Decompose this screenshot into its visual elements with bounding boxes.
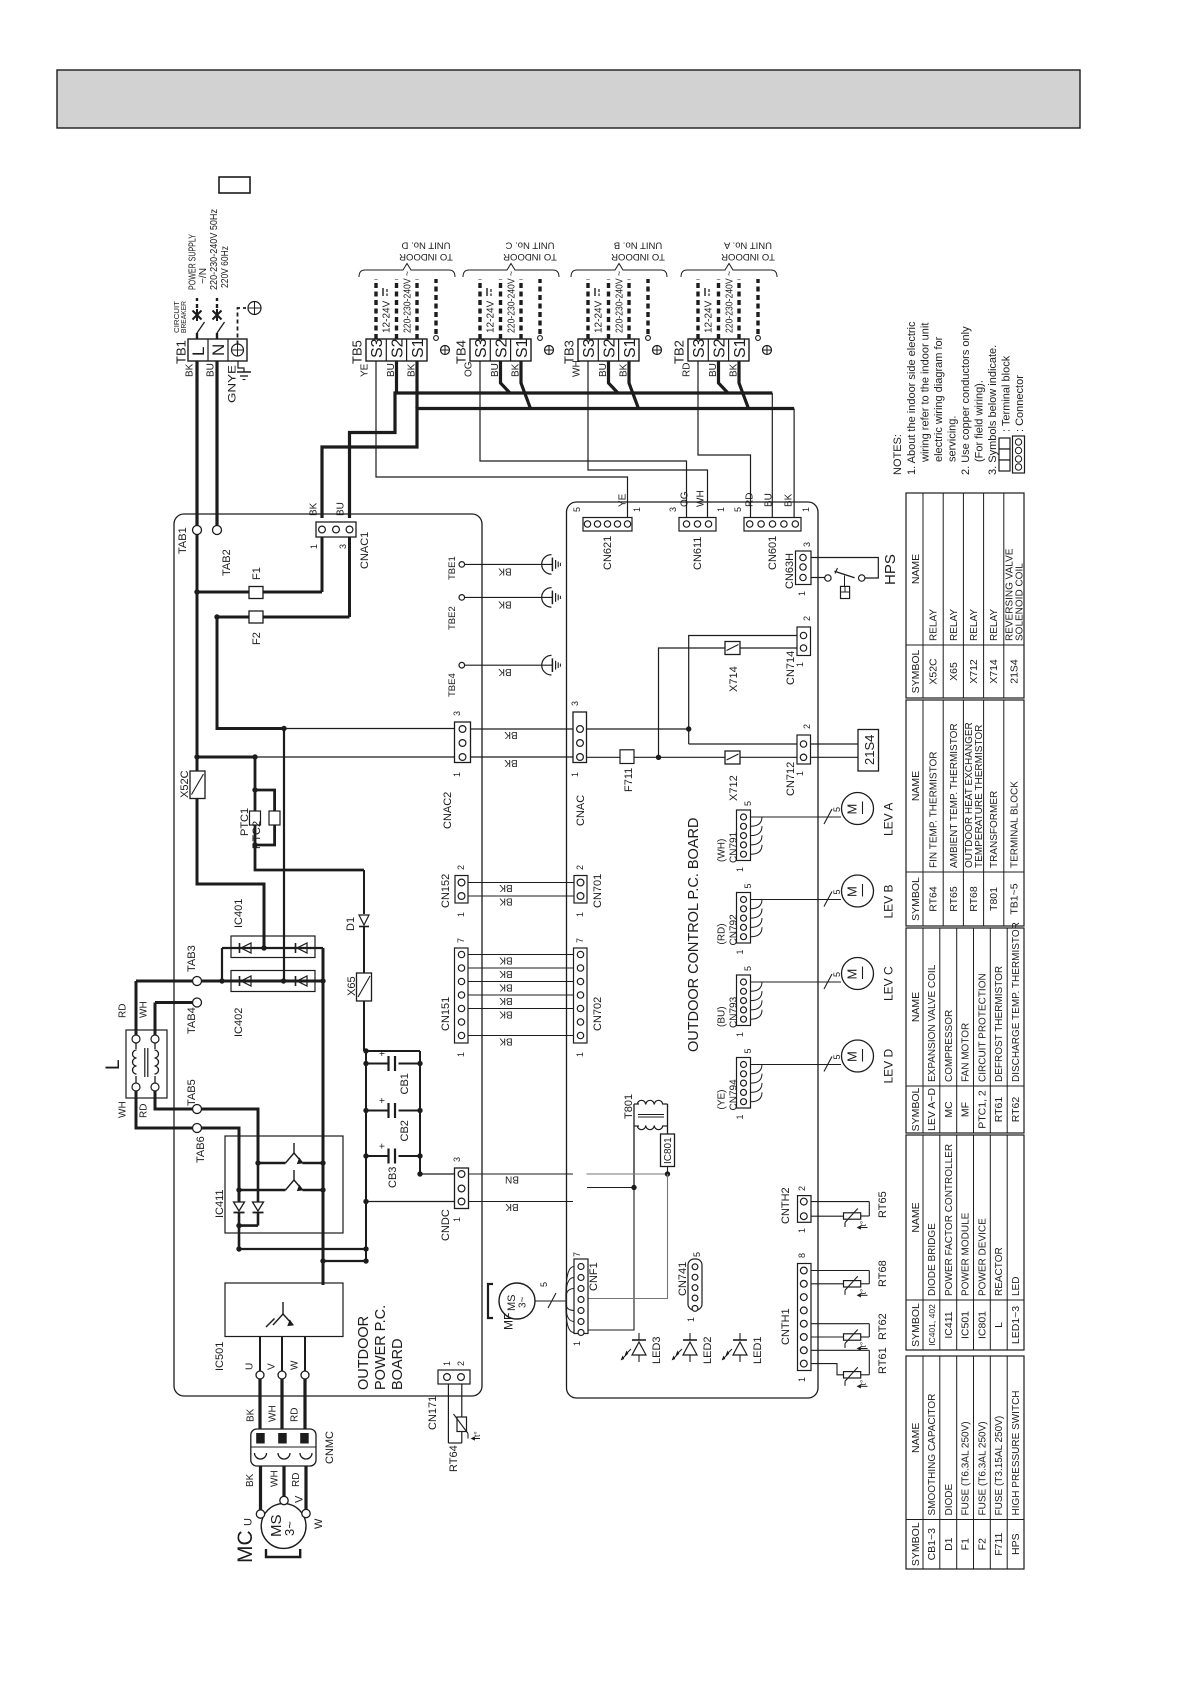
fan wire fan-out to CNF1 pins — [566, 1267, 574, 1302]
svg-text:SMOOTHING CAPACITOR: SMOOTHING CAPACITOR — [927, 1394, 938, 1516]
wire reactor to TAB6 — [136, 1091, 193, 1128]
title bar — [57, 70, 1080, 128]
svg-text:IC411: IC411 — [943, 1311, 955, 1338]
svg-text:F2: F2 — [976, 1538, 988, 1550]
svg-text:W: W — [313, 1518, 325, 1529]
PE symbol of TB5 — [441, 346, 450, 355]
svg-text:CNF1: CNF1 — [588, 1262, 600, 1291]
wire TAB3 to reactor — [135, 981, 138, 1035]
svg-text:POWER FACTOR CONTROLLER: POWER FACTOR CONTROLLER — [944, 1144, 955, 1296]
svg-text:RELAY: RELAY — [929, 609, 940, 641]
connector CN701 — [574, 876, 587, 904]
wire count slash of LEV A — [824, 809, 832, 824]
wire TAB1 column down to X52C — [196, 535, 199, 772]
svg-text:(WH): (WH) — [717, 839, 728, 862]
svg-text:OUTDOOR: OUTDOOR — [356, 1316, 372, 1390]
svg-text:electric wiring diagram for: electric wiring diagram for — [933, 336, 945, 462]
svg-text:CN171: CN171 — [427, 1396, 439, 1430]
wire TB4-S1 drop — [521, 361, 531, 409]
wire count slash of MF — [548, 1293, 556, 1308]
svg-text:BN: BN — [505, 1173, 519, 1184]
svg-text:BK: BK — [499, 1008, 513, 1019]
svg-text:COMPRESSOR: COMPRESSOR — [944, 1010, 955, 1082]
svg-text:WH: WH — [270, 1470, 281, 1487]
connector symbol in notes — [1013, 436, 1025, 473]
wire X714 to F711 net — [659, 648, 726, 757]
svg-text:CN793: CN793 — [729, 996, 740, 1028]
wire reactor to TAB5 — [155, 1091, 193, 1109]
svg-text:5: 5 — [572, 507, 582, 512]
svg-text:FIN TEMP. THERMISTOR: FIN TEMP. THERMISTOR — [929, 752, 940, 869]
svg-text:FUSE (T6.3AL 250V): FUSE (T6.3AL 250V) — [961, 1421, 972, 1515]
wire TAB2 branch to CNAC2 pin3 — [217, 617, 284, 729]
svg-text:3. Symbols below indicate.: 3. Symbols below indicate. — [987, 345, 999, 475]
outdoor power p.c. board outline — [174, 514, 482, 1396]
light emitting diode LED3 — [632, 1342, 646, 1355]
svg-text:LEV B: LEV B — [881, 884, 895, 918]
svg-text:BK: BK — [498, 666, 512, 677]
svg-text:BK: BK — [498, 565, 512, 576]
wire F1 row — [197, 591, 322, 594]
wire X712 to CN712-1 — [740, 756, 797, 758]
connector CN714 — [797, 627, 811, 656]
wire CNAC1-1 to fuse F1 — [321, 537, 324, 592]
wire TAB4 to reactor — [155, 1001, 193, 1004]
svg-text:TAB1: TAB1 — [177, 527, 189, 554]
wire TAB5 into IC411 — [202, 1109, 259, 1163]
svg-text:5: 5 — [832, 1054, 842, 1059]
svg-text:S2: S2 — [601, 338, 618, 358]
svg-text:TBE1: TBE1 — [447, 556, 458, 580]
svg-text:DIODE BRIDGE: DIODE BRIDGE — [927, 1223, 938, 1296]
svg-text:CN701: CN701 — [592, 874, 604, 908]
svg-text:CB2: CB2 — [399, 1120, 411, 1141]
svg-text:RD: RD — [290, 1408, 301, 1422]
svg-text:TAB4: TAB4 — [186, 1007, 198, 1034]
ground symbol below TB1 earth wire — [238, 361, 244, 372]
wires CN151 to CN702 — [468, 954, 574, 956]
svg-text:POWER SUPPLY: POWER SUPPLY — [187, 234, 198, 290]
transformer T801 — [633, 1104, 635, 1188]
bracket TO INDOOR UNIT No.D — [359, 264, 455, 278]
wire CNAC2-3 to CNAC-3 — [471, 728, 574, 730]
terminal TBE4 — [459, 662, 465, 668]
fuse F711 — [620, 750, 634, 764]
expansion valve motor LEV C — [842, 958, 874, 990]
svg-text:TO INDOOR: TO INDOOR — [399, 251, 453, 262]
small empty box under title — [219, 177, 250, 193]
svg-text:SYMBOL: SYMBOL — [910, 1087, 922, 1131]
svg-text:IC401: IC401 — [233, 899, 245, 928]
terminal TAB1 — [193, 526, 202, 535]
svg-text:12-24V: 12-24V — [594, 300, 605, 333]
svg-text:NAME: NAME — [910, 1202, 922, 1232]
connector CN793 — [737, 975, 751, 1026]
power factor module IC411 — [225, 1136, 343, 1233]
svg-text:HIGH PRESSURE SWITCH: HIGH PRESSURE SWITCH — [1011, 1390, 1022, 1515]
PE symbol of TB2 — [763, 346, 772, 355]
svg-text:S2: S2 — [389, 338, 406, 358]
net wire to CNAC2 pin1 — [197, 756, 255, 759]
svg-text:+: + — [378, 1143, 389, 1149]
svg-text:RT68: RT68 — [877, 1260, 889, 1287]
svg-text:t°: t° — [858, 1221, 868, 1227]
bus wire IC402 to IC501 — [322, 948, 325, 1285]
wire CNDC-2 to T801 — [587, 1187, 634, 1189]
svg-text:S1: S1 — [732, 338, 749, 358]
svg-text:220-230-240V ~: 220-230-240V ~ — [403, 271, 414, 333]
svg-text:UNIT No. C: UNIT No. C — [505, 240, 554, 251]
capacitor CB2 — [366, 1110, 388, 1112]
svg-text:U: U — [245, 1363, 256, 1370]
wire IC501 U output — [259, 1337, 261, 1372]
wire rail to CNDC pin3 — [420, 1173, 455, 1175]
terminal TAB6 — [193, 1124, 202, 1133]
svg-text:L: L — [103, 1059, 124, 1070]
svg-text:BK: BK — [504, 757, 518, 768]
protector PTC2 — [255, 790, 275, 811]
wire count slash of LEV B — [824, 892, 832, 907]
terminal TAB3 — [193, 977, 202, 986]
connector CNMC — [251, 1429, 316, 1466]
svg-text:X52C: X52C — [179, 770, 191, 798]
svg-text:S1: S1 — [514, 338, 531, 358]
svg-text:IC401, 402: IC401, 402 — [927, 1304, 937, 1346]
svg-text:CN741: CN741 — [677, 1262, 689, 1296]
wire TB2-S1 drop — [739, 361, 749, 409]
svg-text:WH: WH — [572, 360, 583, 377]
svg-text:F711: F711 — [623, 768, 635, 792]
wires CNMC to compressor — [259, 1466, 262, 1510]
svg-text:RT61: RT61 — [877, 1347, 889, 1374]
fan motor MF — [499, 1283, 535, 1319]
svg-text:TB4: TB4 — [454, 340, 469, 364]
legend sub-table RT64 — [906, 700, 1024, 926]
svg-text:1: 1 — [797, 1228, 807, 1233]
svg-text:220-230-240V ~: 220-230-240V ~ — [725, 271, 736, 333]
svg-text:SOLENOID COIL: SOLENOID COIL — [1014, 563, 1025, 641]
wire F2 row — [217, 616, 350, 619]
wire CN791 to LEV A — [751, 816, 842, 818]
diode bridge IC402 — [231, 971, 315, 992]
circuit breaker contacts above TB1 — [196, 333, 198, 339]
svg-text:LEV D: LEV D — [881, 1048, 895, 1083]
svg-text:WH: WH — [139, 1001, 150, 1018]
svg-text:T801: T801 — [988, 887, 1000, 911]
wire CNAC2-1 to CNAC-1 — [471, 756, 574, 758]
terminal block TB1 — [188, 339, 247, 361]
svg-text:D1: D1 — [943, 1537, 955, 1551]
svg-text:5: 5 — [832, 889, 842, 894]
svg-text:X712: X712 — [728, 775, 740, 801]
wire TB3-S2 drop — [609, 361, 619, 393]
connector CN741 — [688, 1259, 702, 1310]
svg-text:2: 2 — [575, 865, 585, 870]
connector CNAC2 — [455, 722, 471, 763]
relay contact X714 — [740, 647, 797, 649]
svg-text:BOARD: BOARD — [390, 1338, 406, 1390]
dashed earth wire of TB2 — [756, 279, 759, 334]
svg-text:S1: S1 — [410, 338, 427, 358]
wire PTC output to D1 — [255, 845, 364, 870]
svg-text:M: M — [845, 886, 860, 897]
wire CNAC net to CN712-2 — [689, 743, 797, 745]
svg-text:SYMBOL: SYMBOL — [910, 877, 922, 921]
legend sub-table X52C — [906, 493, 1024, 698]
svg-text:5: 5 — [743, 883, 753, 888]
protective earth of TBE2 — [542, 588, 552, 608]
svg-text:YE: YE — [618, 493, 629, 507]
wire TBE1 to protective earth — [465, 563, 553, 565]
svg-text:RELAY: RELAY — [969, 609, 980, 641]
svg-text:TBE4: TBE4 — [447, 673, 458, 697]
wire X65 to capacitor rail — [363, 1001, 365, 1051]
terminal block symbol in notes — [999, 438, 1010, 449]
svg-text:1: 1 — [735, 1114, 745, 1119]
svg-text:2. Use copper conductors only: 2. Use copper conductors only — [960, 326, 972, 475]
svg-text:NAME: NAME — [910, 554, 922, 584]
svg-text:: Terminal block: : Terminal block — [1001, 355, 1013, 432]
svg-text:LED2: LED2 — [702, 1336, 714, 1364]
svg-text:1: 1 — [735, 867, 745, 872]
svg-text:5: 5 — [692, 1252, 702, 1257]
svg-text:+: + — [378, 1051, 389, 1057]
svg-text:1: 1 — [570, 772, 580, 777]
svg-text:TO INDOOR: TO INDOOR — [611, 251, 665, 262]
svg-text:OUTDOOR CONTROL P.C. BOARD: OUTDOOR CONTROL P.C. BOARD — [686, 818, 702, 1052]
svg-text:LEV A~D: LEV A~D — [926, 1088, 938, 1131]
svg-text:TB2: TB2 — [672, 340, 687, 364]
svg-text:1: 1 — [456, 1052, 466, 1057]
expansion valve motor LEV A — [842, 793, 874, 825]
light emitting diode LED1 — [733, 1342, 747, 1355]
svg-text:FUSE (T3.15AL 250V): FUSE (T3.15AL 250V) — [994, 1416, 1005, 1516]
wire OG TB4-S3 to CN611 — [480, 361, 687, 518]
svg-text:CIRCUIT PROTECTION: CIRCUIT PROTECTION — [977, 973, 988, 1082]
connector CNAC1 — [316, 522, 356, 537]
svg-text:12-24V: 12-24V — [704, 300, 715, 333]
svg-text:FUSE (T6.3AL 250V): FUSE (T6.3AL 250V) — [977, 1421, 988, 1515]
svg-text:TO INDOOR: TO INDOOR — [503, 251, 557, 262]
svg-text:BK: BK — [504, 729, 518, 740]
svg-text:3: 3 — [338, 544, 348, 549]
protector PTC1 — [254, 790, 257, 811]
wire CN714-2 to CNAC net — [689, 636, 797, 745]
svg-text:BK: BK — [505, 1201, 519, 1212]
svg-text:S3: S3 — [691, 338, 708, 358]
transformer secondary winding — [637, 1126, 645, 1130]
capacitor right rail — [419, 1051, 421, 1174]
light emitting diode LED2 — [683, 1342, 697, 1355]
wire X52C to IC401 — [197, 799, 264, 949]
svg-text:RT64: RT64 — [928, 886, 940, 912]
svg-text:X712: X712 — [968, 659, 980, 684]
svg-text:UNIT No. A: UNIT No. A — [723, 240, 772, 251]
svg-text:S3: S3 — [581, 338, 598, 358]
svg-text:DIODE: DIODE — [944, 1484, 955, 1516]
wire count slash of LEV D — [824, 1057, 832, 1072]
svg-text:5: 5 — [832, 807, 842, 812]
svg-text:NOTES:: NOTES: — [892, 434, 904, 475]
svg-text:RELAY: RELAY — [989, 609, 1000, 641]
wire TBE2 to protective earth — [465, 596, 553, 598]
relay contact X712 — [725, 751, 740, 764]
wire rail to CNDC pin1 — [366, 1201, 455, 1203]
svg-text:t°: t° — [858, 1289, 868, 1295]
wire TB1-L to TAB1 — [195, 361, 198, 526]
svg-text:IC501: IC501 — [214, 1342, 226, 1371]
svg-text:TAB6: TAB6 — [195, 1136, 207, 1163]
svg-text:5: 5 — [733, 507, 743, 512]
svg-text:BK: BK — [245, 1473, 256, 1487]
svg-text:(For field wiring).: (For field wiring). — [974, 380, 986, 462]
svg-text:21S4: 21S4 — [862, 735, 877, 765]
svg-text:F711: F711 — [993, 1532, 1005, 1555]
connector CN621 — [583, 518, 632, 532]
reactor core lines — [144, 1048, 146, 1077]
svg-text:IC411: IC411 — [214, 1189, 226, 1218]
svg-text:X65: X65 — [948, 662, 960, 681]
wires CN171 to RT64 — [447, 1384, 449, 1443]
high pressure switch HPS — [811, 558, 878, 579]
wire TB3-S1 drop — [629, 361, 639, 409]
dashed field wires above TB2 — [696, 279, 699, 339]
terminal block TB2 — [688, 339, 749, 361]
svg-text:D1: D1 — [345, 917, 357, 931]
svg-text:RT62: RT62 — [1010, 1097, 1022, 1123]
svg-text:BK: BK — [499, 882, 513, 893]
connector CN152 — [455, 876, 468, 904]
svg-text:IC501: IC501 — [960, 1311, 972, 1339]
BK bus wire from terminal blocks to CNAC1 — [322, 409, 794, 519]
wire YE TB5-S3 to CN621 — [376, 361, 628, 518]
connector CN712 — [797, 735, 811, 764]
svg-text:2: 2 — [456, 865, 466, 870]
protective earth of TBE4 — [542, 655, 552, 675]
outdoor control p.c. board outline — [567, 502, 819, 1398]
svg-text:RT68: RT68 — [968, 886, 980, 912]
svg-text:CB3: CB3 — [387, 1167, 399, 1188]
dashed earth lead and PE symbol of TB1 — [238, 308, 247, 345]
svg-text:5: 5 — [832, 972, 842, 977]
svg-text:1: 1 — [797, 591, 807, 596]
connector CNAC — [573, 712, 587, 763]
svg-text:5: 5 — [539, 1282, 549, 1287]
wire count slash of LEV C — [824, 974, 832, 989]
svg-text:TB1~5: TB1~5 — [1008, 883, 1020, 914]
svg-text:1: 1 — [801, 507, 811, 512]
svg-text:t°: t° — [858, 1342, 868, 1348]
svg-text:M: M — [845, 804, 860, 815]
dashed field wires above TB3 — [586, 279, 589, 339]
connector CN151 — [455, 948, 469, 1043]
svg-text:BK: BK — [499, 895, 513, 906]
dashed supply wire N — [216, 298, 218, 308]
svg-text:LEV A: LEV A — [881, 803, 895, 836]
svg-text:POWER P.C.: POWER P.C. — [373, 1305, 389, 1390]
svg-text:REACTOR: REACTOR — [994, 1247, 1005, 1296]
svg-text:1: 1 — [735, 1032, 745, 1037]
svg-text:RD: RD — [682, 363, 693, 377]
thermistor RT65 — [811, 1201, 869, 1203]
wire CNAC-1 to fuse F711 — [587, 756, 621, 758]
BU bus wire from terminal blocks to CNAC1 — [350, 393, 773, 518]
svg-text:BU: BU — [764, 493, 775, 507]
svg-text:HPS: HPS — [882, 554, 899, 585]
IC411 transistor 2 — [293, 1170, 295, 1180]
wires CN152 to CN701 — [468, 882, 574, 884]
svg-text:CN794: CN794 — [729, 1079, 740, 1111]
svg-text:U: U — [243, 1518, 255, 1526]
svg-text:CN63H: CN63H — [784, 553, 796, 589]
svg-text:AMBIENT TEMP. THERMISTOR: AMBIENT TEMP. THERMISTOR — [949, 723, 960, 868]
svg-text:1: 1 — [716, 507, 726, 512]
svg-text:CN152: CN152 — [440, 874, 452, 908]
svg-text:MC: MC — [234, 1530, 257, 1563]
svg-text:1: 1 — [452, 1217, 462, 1222]
svg-text:NAME: NAME — [910, 1423, 922, 1453]
diode D1 — [363, 870, 365, 914]
svg-text:WH: WH — [118, 1101, 129, 1118]
svg-text:MC: MC — [943, 1101, 955, 1118]
wire RD TB2-S3 to CN601 — [698, 361, 751, 518]
wire CNAC1-3 to fuse F2 — [348, 537, 351, 617]
svg-text:GNYE: GNYE — [227, 365, 239, 403]
dashed field wires above TB5 — [374, 279, 377, 339]
svg-text:3: 3 — [452, 711, 462, 716]
svg-text:BK: BK — [499, 981, 513, 992]
svg-text:BU: BU — [336, 502, 347, 516]
svg-text:(RD): (RD) — [717, 923, 728, 944]
svg-text:7: 7 — [575, 938, 585, 943]
svg-text:SYMBOL: SYMBOL — [910, 1522, 922, 1566]
svg-text:1: 1 — [309, 544, 319, 549]
capacitor left rail — [365, 1051, 367, 1261]
dashed field wires above TB4 — [478, 279, 481, 339]
svg-text:HPS: HPS — [1010, 1533, 1022, 1555]
svg-text:12-24V: 12-24V — [382, 300, 393, 333]
svg-text:DEFROST THERMISTOR: DEFROST THERMISTOR — [994, 966, 1005, 1082]
terminal block TB3 — [578, 339, 639, 361]
wire CNDC-3 to IC801 — [587, 1173, 668, 1175]
svg-text:7: 7 — [456, 938, 466, 943]
svg-text:BK: BK — [499, 995, 513, 1006]
svg-text:PTC1: PTC1 — [239, 808, 251, 836]
svg-text:8: 8 — [797, 1253, 807, 1258]
svg-text:TRANSFORMER: TRANSFORMER — [989, 791, 1000, 868]
wire IC501 W output — [304, 1337, 306, 1372]
svg-text:TAB5: TAB5 — [186, 1079, 198, 1106]
svg-text:S2: S2 — [711, 338, 728, 358]
wire TBE4 to protective earth — [465, 664, 553, 666]
svg-text:S3: S3 — [473, 338, 490, 358]
svg-text:CNTH2: CNTH2 — [780, 1187, 792, 1224]
svg-text:L: L — [993, 1322, 1005, 1328]
svg-text:CN151: CN151 — [440, 997, 452, 1031]
wire TB2-S2 drop — [719, 361, 729, 393]
IC411 transistor wires — [258, 1162, 286, 1165]
svg-text:CN791: CN791 — [729, 831, 740, 863]
reactor L — [126, 1030, 167, 1098]
capacitor rail top — [364, 1050, 420, 1052]
svg-text:BK: BK — [498, 598, 512, 609]
wire CN792 to LEV B — [751, 899, 842, 901]
power device IC801 — [661, 1134, 675, 1167]
svg-text:7: 7 — [572, 1252, 582, 1257]
connector CNF1 — [574, 1259, 588, 1334]
svg-text:: Connector: : Connector — [1014, 375, 1026, 432]
svg-text:BK: BK — [499, 968, 513, 979]
